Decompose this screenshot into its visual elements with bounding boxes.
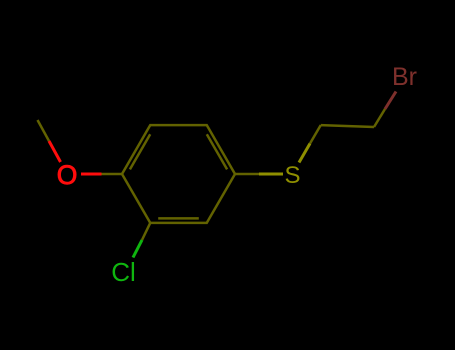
svg-text:S: S	[284, 162, 300, 189]
svg-text:O: O	[57, 160, 78, 190]
svg-text:Br: Br	[392, 63, 417, 91]
svg-text:Cl: Cl	[111, 257, 136, 287]
